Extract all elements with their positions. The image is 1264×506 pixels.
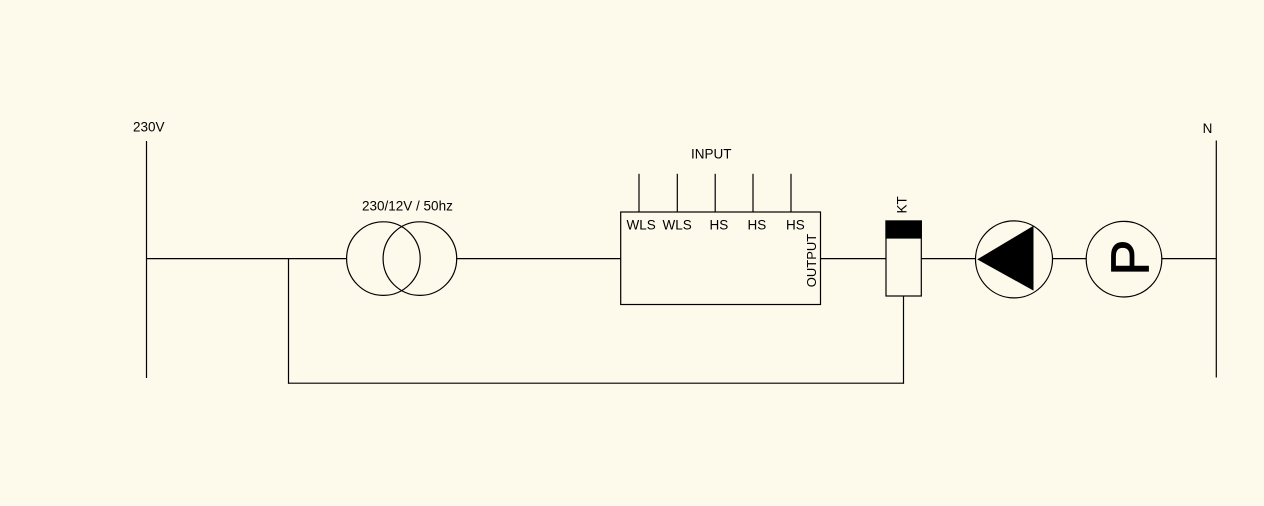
pump M1 circle bbox=[976, 221, 1053, 298]
wire: left 230V rail bbox=[146, 141, 148, 378]
transformer T1 primary winding bbox=[347, 222, 421, 296]
svg-text:WLS: WLS bbox=[627, 218, 656, 233]
svg-text:230/12V / 50hz: 230/12V / 50hz bbox=[362, 199, 453, 214]
svg-text:INPUT: INPUT bbox=[691, 147, 732, 162]
svg-text:WLS: WLS bbox=[663, 218, 692, 233]
relay KT body bbox=[886, 221, 921, 296]
pin 4 wire bbox=[752, 174, 754, 212]
controller U1 box bbox=[621, 212, 821, 305]
wire: pump to P meter bbox=[1053, 258, 1087, 260]
pin 5 wire bbox=[790, 174, 792, 212]
svg-text:P: P bbox=[1100, 240, 1160, 276]
wire: KT to pump bbox=[921, 258, 975, 260]
wire: return up to KT bottom bbox=[903, 296, 905, 384]
svg-text:HS: HS bbox=[748, 218, 767, 233]
svg-text:OUTPUT: OUTPUT bbox=[804, 234, 819, 288]
pin 1 wire bbox=[638, 174, 640, 212]
wire: transformer to controller box bbox=[456, 258, 620, 260]
wire: controller output to KT bbox=[821, 258, 887, 260]
relay KT filled head bbox=[886, 221, 921, 238]
wire: P meter to N rail bbox=[1162, 258, 1217, 260]
wire: branch vertical down bbox=[288, 259, 290, 384]
svg-text:N: N bbox=[1203, 121, 1213, 136]
svg-text:HS: HS bbox=[786, 218, 805, 233]
meter P1 circle bbox=[1086, 221, 1162, 297]
svg-text:HS: HS bbox=[710, 218, 729, 233]
wire: main horizontal from rail to transformer bbox=[147, 258, 348, 260]
svg-text:KT: KT bbox=[895, 196, 910, 213]
wire: N rail bbox=[1215, 141, 1217, 378]
pin 3 wire bbox=[714, 174, 716, 212]
pump M1 triangle bbox=[977, 226, 1033, 291]
svg-text:230V: 230V bbox=[133, 120, 165, 135]
pin 2 wire bbox=[676, 174, 678, 212]
wire: bottom return horizontal bbox=[289, 382, 904, 384]
transformer T1 secondary winding bbox=[383, 222, 457, 296]
